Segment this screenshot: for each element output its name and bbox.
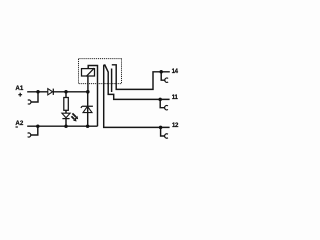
svg-text:A2: A2	[15, 120, 23, 127]
svg-text:12: 12	[172, 122, 179, 129]
svg-text:14: 14	[172, 68, 179, 75]
svg-text:A1: A1	[15, 85, 23, 92]
svg-text:11: 11	[172, 94, 179, 101]
